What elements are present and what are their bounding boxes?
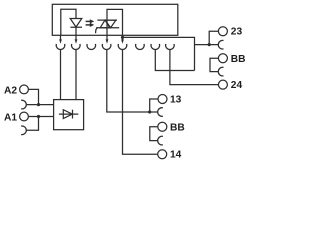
input protection box (54, 100, 84, 130)
wire A1 to input box (28, 116, 53, 118)
bridge socket right 1 (218, 40, 223, 49)
socket S4 (102, 44, 111, 50)
bridge socket right 2 (218, 67, 223, 76)
wire up to terminal 23 (209, 31, 218, 44)
socket S5 (118, 44, 127, 50)
wire S2 to input box (75, 49, 77, 99)
socket A1 (21, 126, 26, 135)
wire S7 to node23 (155, 49, 194, 70)
LED D1 (70, 19, 82, 28)
bridge socket mid 2 (158, 136, 163, 145)
wire S5 to terminal 14 (123, 49, 158, 154)
triac MT1 lead (106, 20, 108, 35)
wire A1 socket up (26, 117, 38, 131)
wire S8 to terminal 24 (170, 49, 219, 84)
junction dot (208, 43, 211, 46)
wire S1 to input box (60, 49, 62, 99)
terminal circle A1 (20, 112, 29, 121)
socket S8 (166, 44, 175, 50)
pin 4 (122, 35, 124, 40)
pin 3 (106, 35, 108, 40)
svg-text:BB: BB (231, 54, 246, 65)
terminal circle BB right (218, 54, 227, 63)
svg-text:BB: BB (170, 122, 185, 133)
junction dot A1 (37, 115, 40, 118)
svg-text:23: 23 (231, 27, 243, 38)
svg-text:24: 24 (231, 80, 243, 91)
triac MT2 loop wire (107, 9, 123, 35)
junction dot A2 (37, 103, 40, 106)
terminal circle BB mid (158, 122, 167, 131)
bracket BB to socket (210, 58, 219, 71)
triac Q1 (97, 19, 117, 21)
triac gate (96, 28, 98, 34)
pin 1 (60, 35, 62, 40)
LED loop wire (61, 9, 76, 35)
bracket terminal 13 to socket (150, 99, 159, 112)
relay module box (52, 4, 178, 35)
diode D2 (59, 113, 78, 115)
terminal circle 13 (158, 95, 167, 104)
terminal circle A2 (20, 85, 29, 94)
terminal circle 24 (218, 80, 227, 89)
wire A2 node to input box (26, 104, 53, 106)
socket A2 (21, 100, 26, 109)
wire A2 down (28, 89, 38, 104)
socket S6 (136, 44, 145, 50)
optocoupler arrows (86, 21, 91, 25)
socket S1 (56, 44, 65, 50)
wire node23 to socket (195, 44, 219, 46)
socket S3 (87, 44, 96, 50)
terminal circle 14 (158, 150, 167, 159)
svg-text:A2: A2 (4, 85, 17, 96)
svg-text:A1: A1 (4, 113, 17, 124)
bridge socket mid 1 (158, 108, 163, 117)
pin 2 (75, 35, 77, 40)
svg-text:13: 13 (170, 95, 182, 106)
wire S4 to node 13 (107, 49, 150, 112)
svg-text:14: 14 (170, 150, 182, 161)
socket S7 (151, 44, 160, 50)
socket S2 (72, 44, 81, 50)
junction dot pin4 (121, 36, 124, 39)
bracket BB mid to socket (150, 127, 158, 141)
junction dot node13 (148, 110, 151, 113)
terminal circle 23 (218, 27, 227, 36)
wire pin4 to node 23 (123, 37, 195, 70)
